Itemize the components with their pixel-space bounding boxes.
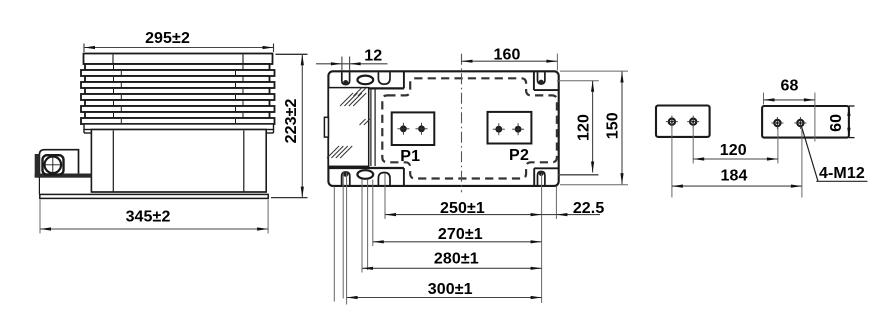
dim 120 arrows: [591, 81, 594, 92]
left view fin rib 10: [81, 118, 275, 124]
top-left slot hole: [342, 72, 350, 84]
bottom oval slot: [357, 170, 373, 179]
left view fin rib 3: [85, 76, 270, 82]
left view fin rib 9 joint ticks: [113, 113, 115, 117]
dim 300±1 line: [347, 297, 542, 299]
terminal box thick bottom bar: [35, 174, 91, 177]
dim 22.5 line: [542, 214, 600, 216]
plan view top-right tab notch: [533, 71, 535, 90]
dim 250±1 arrows: [385, 213, 396, 216]
left view body inner vertical right: [243, 131, 245, 192]
top-right slot hole: [538, 72, 545, 84]
primary terminal plate right: [762, 106, 849, 138]
bottom-left second slot: [378, 173, 390, 186]
svg-text:250±1: 250±1: [440, 200, 485, 217]
extension line second slot: [384, 174, 386, 220]
dim 160 arrows: [462, 60, 473, 63]
plan view left bottom band end vertical: [403, 168, 405, 186]
dim 12 line: [316, 63, 388, 65]
svg-text:P2: P2: [509, 147, 529, 164]
svg-text:295±2: 295±2: [145, 30, 190, 47]
left view fin rib 1 joint ticks: [113, 65, 115, 69]
glass panel inner edge line: [370, 88, 372, 166]
plan view left top band divider: [328, 87, 404, 89]
vertical center line: [461, 54, 463, 193]
dim 150 arrows: [620, 72, 623, 83]
primary terminal plate left: [656, 106, 710, 137]
top oval slot: [357, 76, 373, 85]
extension line bottom-right slot: [541, 174, 543, 304]
left view step flange right lip: [273, 130, 275, 134]
extension line oval left: [361, 180, 363, 273]
dim 223±2 extension top: [276, 53, 308, 55]
dim 280±1 arrows: [362, 267, 373, 270]
left view fin rib 1: [85, 64, 270, 70]
left view fin rib 9: [85, 112, 270, 118]
glass panel hatching middle ticks: [360, 119, 366, 125]
right plate edge stubs: [849, 105, 855, 107]
dim 68 arrows: [764, 98, 775, 101]
dim 184 arrows: [672, 185, 683, 188]
plan view outer outline: [328, 71, 558, 186]
left view body inner vertical left: [112, 131, 114, 192]
glass window panel: [328, 88, 368, 167]
terminal box thick left bar: [35, 155, 39, 177]
dim 22.5 arrow: [556, 213, 567, 216]
left view base plate: [40, 194, 268, 198]
left view top cap inner vertical left: [112, 55, 114, 64]
left plate hole 2: [690, 119, 696, 125]
dim 68 extension lines: [763, 93, 765, 105]
left view fin rib 5 joint ticks: [113, 89, 115, 93]
left view body: [91, 130, 266, 193]
svg-text:22.5: 22.5: [573, 200, 605, 217]
svg-text:12: 12: [364, 48, 382, 65]
dim 184 line: [672, 185, 802, 187]
svg-text:60: 60: [828, 114, 845, 132]
glass panel hatching lower: [327, 146, 339, 158]
dim 150 extension lines: [560, 70, 628, 72]
svg-text:120: 120: [720, 142, 747, 159]
dim 295±2 extension lines: [83, 44, 85, 53]
dim 60 arrows: [847, 107, 850, 116]
dim 150 line: [621, 72, 623, 185]
terminal box left stem: [38, 177, 40, 194]
dim 295±2 line: [84, 47, 274, 49]
terminal box inner square: [43, 155, 64, 174]
left view bottom step flange: [84, 124, 274, 130]
bottom-right slot hole: [538, 172, 545, 186]
left view step flange left lip: [83, 130, 85, 134]
svg-text:150: 150: [604, 112, 621, 139]
terminal box outline: [39, 150, 78, 177]
left view fin rib 8 joint ticks: [120, 107, 122, 111]
top-left second slot: [378, 72, 390, 84]
left view fin rib 7: [85, 100, 270, 106]
left view fin rib 2: [81, 70, 275, 76]
svg-text:300±1: 300±1: [428, 281, 473, 298]
extension line body right corner: [555, 187, 557, 220]
dim 223±2 arrows: [301, 54, 304, 65]
dim 223±2 extension bottom: [271, 197, 308, 199]
svg-text:P1: P1: [400, 148, 420, 165]
left view fin rib 10 joint ticks: [120, 119, 122, 123]
dim 160 right extension: [556, 54, 558, 71]
terminal pad P2: [488, 112, 532, 144]
svg-text:184: 184: [721, 167, 748, 184]
left view fin rib 7 joint ticks: [113, 101, 115, 105]
dashed moulded body outline: [382, 78, 557, 178]
left view fin rib 4: [81, 82, 275, 88]
dim 270±1 line: [373, 241, 542, 243]
left view top cap inner vertical right: [242, 55, 244, 64]
right plate hole 1: [774, 120, 780, 126]
svg-text:280±1: 280±1: [434, 251, 479, 268]
dim 345±2 extension lines: [39, 200, 41, 234]
terminal screw circle: [45, 157, 62, 174]
left view fin rib 5: [85, 88, 270, 94]
svg-text:4-M12: 4-M12: [819, 165, 865, 182]
svg-text:223±2: 223±2: [283, 98, 300, 143]
svg-text:120: 120: [576, 114, 593, 141]
right plate hole 2: [797, 120, 803, 126]
extension line oval right: [372, 180, 374, 247]
left view base plate mid line: [91, 191, 266, 193]
left view fin rib 3 joint ticks: [113, 77, 115, 81]
dim 345±2 arrows: [40, 227, 51, 230]
dim 120 plate line: [693, 158, 778, 160]
label 4-M12 leader line: [802, 127, 819, 182]
dim 300±1 arrows: [347, 296, 358, 299]
terminal pad P1: [392, 112, 435, 145]
dim 120 extension lines: [557, 80, 599, 82]
dim 345±2 line: [40, 228, 268, 230]
left view fin rib 6: [81, 94, 275, 100]
svg-text:345±2: 345±2: [126, 208, 171, 225]
left edge boss: [324, 117, 328, 137]
left plate hole 1: [669, 119, 675, 125]
dim 12 extension lines: [341, 57, 343, 72]
dim 295±2 arrows: [84, 46, 95, 49]
terminal screw cross: [44, 164, 62, 166]
left view fin rib 6 joint ticks: [120, 95, 122, 99]
extension line bottom-left slot: [342, 173, 344, 299]
svg-text:160: 160: [494, 46, 521, 63]
glass panel second edge line: [374, 88, 376, 166]
dim 120 plate extension lines: [692, 125, 694, 164]
dim 12 arrows: [331, 62, 342, 65]
label 4-M12 underline: [816, 180, 867, 182]
svg-text:270±1: 270±1: [438, 226, 483, 243]
svg-text:68: 68: [781, 78, 799, 95]
left view fin rib 8: [81, 106, 275, 112]
dim 280±1 line: [362, 267, 542, 269]
dim 120 line: [592, 81, 594, 173]
dim 120 plate arrows: [693, 157, 704, 160]
left view fin rib 2 joint ticks: [120, 71, 122, 75]
dim 68 line: [764, 99, 815, 101]
glass panel hatching upper: [340, 93, 353, 106]
dim 160 line: [462, 60, 558, 62]
dim 270±1 arrows: [373, 240, 384, 243]
bottom-left slot hole: [342, 172, 350, 185]
dim 184 extension lines: [671, 125, 673, 198]
plan view left bottom band divider: [328, 167, 404, 169]
glass panel hatching small upper: [354, 88, 362, 96]
dim 223±2 line: [301, 54, 303, 197]
dim 250±1 line: [385, 214, 542, 216]
plan view bottom-right tab notch: [533, 168, 535, 186]
extension line body left corner: [333, 187, 335, 302]
left view top cap plate: [84, 54, 273, 65]
left view fin rib 4 joint ticks: [120, 83, 122, 87]
plan view left top band end vertical: [403, 71, 405, 88]
